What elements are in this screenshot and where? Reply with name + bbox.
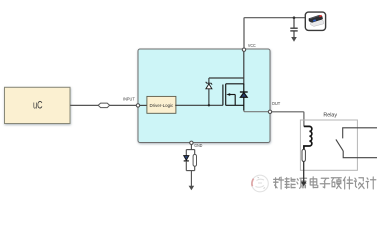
wire split top: [186, 149, 194, 151]
battery icon box: [305, 12, 325, 30]
zener diode D1: [206, 78, 212, 105]
ground (capacitor): [291, 37, 297, 42]
watermark logo: [252, 175, 269, 192]
wire VCC up and right to battery: [244, 18, 305, 48]
svg-text:VCC: VCC: [248, 43, 256, 48]
svg-text:Relay: Relay: [323, 112, 337, 118]
capacitor C1: [290, 18, 297, 38]
wire VCC riser inside block: [243, 50, 245, 85]
resistor R3 (relay): [302, 149, 305, 161]
driver IC block (cyan): [138, 49, 270, 143]
relay box: [300, 120, 357, 170]
junction dot capacitor: [293, 16, 296, 19]
Driver-Logic block U1: [147, 96, 176, 113]
wire relay to ground: [303, 162, 305, 183]
svg-text:OUT: OUT: [272, 101, 281, 106]
ground (gnd pin): [189, 186, 195, 190]
wire uC to resistor: [70, 104, 98, 106]
node VCC: [242, 48, 245, 51]
inductor L1 (relay coil): [304, 126, 312, 149]
svg-text:GND: GND: [194, 143, 203, 148]
wire zener to VCC rail: [209, 77, 244, 79]
wire join bottom: [186, 170, 194, 172]
node INPUT: [136, 104, 139, 107]
junction dot zener/gate: [208, 104, 210, 106]
diode D3 (gnd clamp): [184, 156, 189, 171]
battery icon: [309, 15, 324, 27]
resistor R1 (series input): [98, 103, 109, 108]
resistor R2 (gnd): [193, 150, 196, 171]
wire OUT to relay: [272, 112, 304, 127]
wire GND stem: [190, 145, 192, 150]
uC box: [5, 87, 71, 123]
body diode D2: [240, 84, 248, 111]
wire left branch: [185, 150, 187, 156]
svg-text:uC: uC: [33, 99, 43, 111]
ground (relay): [301, 182, 307, 187]
svg-text:INPUT: INPUT: [123, 97, 135, 102]
wire gate (driver to MOSFET gate): [175, 104, 223, 106]
wire resistor to INPUT node: [110, 104, 137, 106]
wire down to ground: [190, 171, 192, 187]
watermark text (9 hanzi pseudo-glyphs): [274, 177, 376, 189]
switch S1 (relay contact): [336, 128, 377, 158]
svg-text:Driver-Logic: Driver-Logic: [150, 103, 174, 108]
wire INPUT to Driver-Logic: [140, 104, 147, 106]
MOSFET Q1: [223, 84, 244, 106]
node GND: [190, 141, 193, 144]
wire to OUT node: [244, 110, 268, 112]
node OUT: [268, 110, 271, 113]
